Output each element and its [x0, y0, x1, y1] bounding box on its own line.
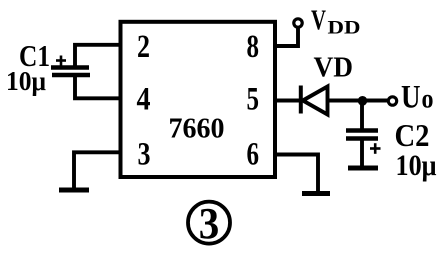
label VDD — [311, 5, 361, 39]
wire pin 6 to right ground — [274, 155, 318, 193]
wire junction to C2 — [360, 101, 364, 132]
wire pin 3 to left ground — [74, 152, 121, 189]
wire pin 5 to diode — [274, 99, 302, 103]
svg-text:U: U — [401, 80, 421, 116]
capacitor C2 plates — [346, 131, 378, 139]
polarity + of C1 — [56, 56, 66, 67]
svg-text:4: 4 — [137, 82, 151, 118]
polarity + of C2 — [370, 143, 381, 154]
node junction dot — [358, 96, 368, 106]
node Uo terminal circle — [388, 97, 396, 105]
svg-text:C2: C2 — [395, 117, 430, 153]
svg-text:5: 5 — [247, 82, 260, 118]
capacitor C1 plates — [51, 68, 90, 76]
svg-text:V: V — [311, 5, 326, 37]
ground (right) — [302, 191, 330, 196]
figure number circled 3 — [188, 199, 230, 248]
wire pin 2 to C1 top — [75, 45, 121, 68]
svg-text:o: o — [422, 84, 434, 114]
wire C2 to ground — [360, 139, 364, 167]
wire diode to output terminal — [328, 99, 390, 103]
svg-text:DD: DD — [328, 18, 361, 39]
svg-text:6: 6 — [247, 137, 260, 173]
wire pin 8 to VDD terminal — [274, 28, 298, 46]
ground (left) — [59, 188, 89, 193]
svg-text:VD: VD — [314, 52, 354, 84]
ground (C2) — [348, 166, 378, 171]
node VDD terminal circle — [294, 19, 302, 27]
label Uo — [401, 80, 434, 116]
svg-text:3: 3 — [199, 199, 220, 248]
wire pin 4 to C1 bottom — [75, 75, 121, 98]
diode VD — [301, 86, 328, 115]
svg-text:8: 8 — [247, 29, 260, 65]
svg-text:2: 2 — [137, 29, 150, 65]
svg-text:3: 3 — [138, 137, 151, 173]
svg-text:7660: 7660 — [169, 113, 225, 145]
svg-text:10μ: 10μ — [6, 66, 46, 96]
svg-text:10μ: 10μ — [396, 149, 437, 182]
IC U1 7660 — [121, 22, 276, 177]
